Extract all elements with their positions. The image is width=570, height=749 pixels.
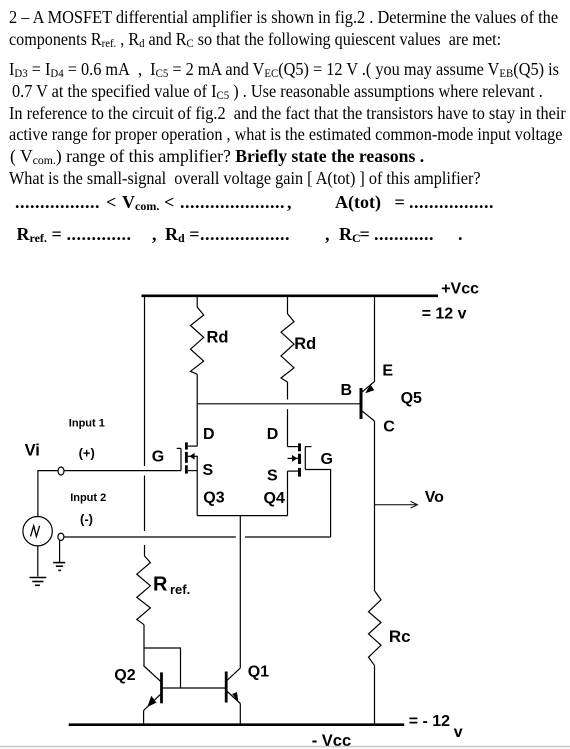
AC source symbol N (31, 526, 40, 537)
resistor R ref. (137, 556, 151, 625)
wire: left vertical from +Vcc rail to R ref (with crossing gaps) (144, 297, 146, 466)
svg-text:(-): (-) (80, 512, 93, 527)
wire: Q5 base from Q3 drain (197, 403, 359, 405)
wire: Q5 collector down to Rc (374, 421, 376, 591)
svg-text:Input 1: Input 1 (69, 418, 105, 430)
wire: diode connection loop to Q2 base (144, 648, 181, 688)
svg-text:Rd: Rd (294, 335, 316, 353)
svg-text:+Vcc: +Vcc (441, 280, 479, 297)
svg-text:S: S (267, 468, 278, 485)
wire: AC source to ground (37, 546, 39, 577)
wire: Q4 source down to tail (287, 471, 289, 515)
svg-text:= 12 v: = 12 v (422, 305, 467, 322)
resistor Rc (369, 591, 382, 666)
transistor Q2 (NPN diode connected) (143, 666, 161, 725)
document text block (9, 8, 558, 26)
svg-text:E: E (382, 362, 393, 379)
wire: Q4 drain below gap (287, 409, 289, 447)
wire: Rd1 bottom to Q3 drain (196, 374, 198, 446)
+Vcc top rail (142, 294, 439, 297)
svg-text:D: D (267, 426, 279, 443)
svg-text:Vi: Vi (25, 442, 40, 460)
svg-text:Q5: Q5 (401, 390, 422, 407)
-Vcc bottom rail (69, 723, 405, 726)
wire: tail bar joining Q3/Q4 sources (197, 515, 287, 517)
wire: input1 left segment and down to AC source (38, 471, 58, 517)
svg-text:C: C (383, 419, 395, 436)
svg-text:v: v (454, 724, 463, 741)
wire: base rail Q2-Q1 (162, 687, 227, 689)
terminal node input 2 (58, 533, 64, 540)
terminal node input 1 (58, 467, 64, 475)
svg-text:G: G (152, 449, 164, 466)
svg-text:Input 2: Input 2 (70, 492, 106, 504)
MOSFET Q3 (177, 442, 198, 473)
bottom gray divider (0, 746, 570, 748)
svg-text:Q2: Q2 (114, 667, 135, 684)
wire: input 2 to Q4 gate (gap at tail crossing) (65, 536, 236, 538)
svg-text:Q1: Q1 (248, 664, 269, 681)
svg-text:ref.: ref. (170, 582, 190, 597)
ground (AC source) (30, 578, 47, 586)
svg-text:Rc: Rc (389, 627, 411, 646)
wire: Rd2 bottom to crossing gap (287, 382, 289, 399)
wire: input2 stem to ground (59, 540, 61, 562)
svg-text:D: D (203, 426, 215, 443)
resistor Rd (right) (281, 297, 294, 382)
Vo arrow (375, 504, 417, 506)
svg-text:Rd: Rd (207, 329, 229, 347)
svg-text:S: S (203, 462, 214, 479)
wire: Rc bottom to -Vcc rail (374, 666, 376, 725)
wire: Q3 source down to tail (196, 471, 198, 516)
svg-text:= - 12: = - 12 (409, 713, 450, 730)
wire: Q5 emitter vertical (374, 297, 376, 382)
AC source Vi (23, 517, 52, 546)
wire: tail down to Q1 collector (239, 516, 241, 668)
transistor Q5 (PNP) (361, 382, 375, 422)
svg-text:Q4: Q4 (264, 490, 285, 507)
svg-text:Q3: Q3 (203, 490, 224, 507)
wire: R ref bottom (143, 625, 145, 666)
resistor Rd (left) (191, 297, 204, 375)
wire: input 1 to Q3 gate (65, 470, 182, 472)
ground (input 2) (53, 563, 65, 571)
transistor Q1 (NPN) (226, 668, 240, 725)
svg-text:(+): (+) (79, 446, 95, 461)
svg-text:Vo: Vo (425, 489, 444, 506)
MOSFET Q4 (288, 443, 312, 476)
wire: Q4 gate lead (305, 470, 330, 538)
svg-text:G: G (321, 451, 333, 468)
svg-text:B: B (341, 382, 353, 399)
svg-text:R: R (153, 574, 168, 596)
